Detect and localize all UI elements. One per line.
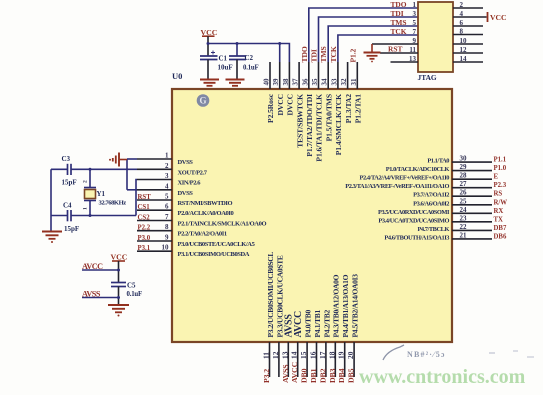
svg-text:TDO: TDO xyxy=(391,0,407,9)
node CS1 xyxy=(138,204,151,211)
svg-text:P1.0: P1.0 xyxy=(494,165,507,172)
svg-text:34: 34 xyxy=(321,78,329,86)
svg-text:12: 12 xyxy=(460,46,468,54)
svg-text:P4.6/TBOUTH/A15/OA1I3: P4.6/TBOUTH/A15/OA1I3 xyxy=(384,234,449,241)
svg-text:P1.1/TA0: P1.1/TA0 xyxy=(427,158,449,165)
svg-text:TDI: TDI xyxy=(310,49,319,62)
svg-text:P1.2: P1.2 xyxy=(348,48,357,62)
wire crystal bottom row xyxy=(71,214,136,217)
node DB5 xyxy=(347,368,356,383)
svg-text:9: 9 xyxy=(165,234,169,242)
svg-text:6: 6 xyxy=(165,203,169,211)
node R/W xyxy=(494,199,508,206)
ground under C1 xyxy=(200,80,219,86)
svg-text:C2: C2 xyxy=(245,54,254,62)
pin J12 xyxy=(453,46,483,54)
node P2.2 xyxy=(138,225,151,232)
ground DVSS sideways xyxy=(109,153,127,167)
svg-text:36: 36 xyxy=(301,78,309,86)
designator U0 xyxy=(172,71,182,81)
svg-text:40: 40 xyxy=(263,78,271,86)
pin 26 P3.7/A7/OA1I2 xyxy=(413,189,492,199)
node AVSS xyxy=(281,364,290,383)
svg-text:1: 1 xyxy=(83,207,89,210)
svg-text:VCC: VCC xyxy=(111,253,128,262)
svg-text:38: 38 xyxy=(282,78,290,86)
svg-text:P3.0/UCB0STE/UCA0CLK/A5: P3.0/UCB0STE/UCA0CLK/A5 xyxy=(178,241,256,248)
pin 1 DVSS xyxy=(137,152,193,167)
svg-text:6: 6 xyxy=(460,19,464,27)
node TX xyxy=(494,216,504,223)
pin J4 xyxy=(453,10,487,18)
svg-text:DB5: DB5 xyxy=(347,368,356,383)
pin 21 P4.6/TBOUTH/A15/OA1I3 xyxy=(384,231,492,241)
wire left vertical C3-C4 xyxy=(50,169,52,231)
wire TDO to JTAG xyxy=(309,8,418,62)
pin 28 P2.4/TA2/A4/VREF+/VeREF+/OA1I0 xyxy=(360,172,492,182)
svg-text:0.1uF: 0.1uF xyxy=(127,291,142,298)
node DB2 xyxy=(318,368,327,383)
node RX xyxy=(494,208,504,215)
connector JTAG body xyxy=(418,2,454,82)
node P3.2 xyxy=(262,369,271,383)
wire TCK to JTAG xyxy=(338,35,418,62)
svg-text:3: 3 xyxy=(413,10,417,18)
svg-text:P2.1/TAINCLK/SMCLK/A1/OA0O: P2.1/TAINCLK/SMCLK/A1/OA0O xyxy=(178,221,267,228)
node DB3 xyxy=(328,368,337,383)
pin 8 P2.2/TA0/A2/OA0I1 xyxy=(137,223,227,238)
pin J11 xyxy=(380,46,418,54)
svg-text:1: 1 xyxy=(165,152,169,160)
power VCC avcc xyxy=(111,253,128,283)
crystal Y1 xyxy=(83,169,127,215)
node P2.3 xyxy=(494,182,507,189)
svg-text:16: 16 xyxy=(309,351,318,359)
svg-text:P2.5Rosc: P2.5Rosc xyxy=(266,93,275,123)
svg-text:11: 11 xyxy=(262,352,271,359)
svg-text:DB2: DB2 xyxy=(318,368,327,383)
ground avss xyxy=(108,305,129,317)
svg-text:DVSS: DVSS xyxy=(178,159,194,166)
node AVSS xyxy=(82,289,120,299)
svg-text:DB1: DB1 xyxy=(309,368,318,383)
svg-text:1: 1 xyxy=(413,1,417,9)
svg-text:P1.3/TA2: P1.3/TA2 xyxy=(344,94,353,124)
node P3.0 xyxy=(138,235,151,242)
svg-text:TEST/SBWTCK: TEST/SBWTCK xyxy=(295,94,304,148)
svg-text:20: 20 xyxy=(346,351,355,359)
svg-text:2: 2 xyxy=(83,180,89,183)
pin J2 xyxy=(453,1,483,9)
svg-text:2: 2 xyxy=(460,1,464,9)
svg-text:R/W: R/W xyxy=(494,199,508,206)
svg-text:TX: TX xyxy=(494,216,504,223)
svg-text:P3.2/UCB0SOMI/UCB0SCL: P3.2/UCB0SOMI/UCB0SCL xyxy=(266,252,275,338)
svg-text:28: 28 xyxy=(460,172,468,180)
pin 24 P3.5/UCA0RXD/UCA0SOMI xyxy=(378,206,492,216)
svg-text:5: 5 xyxy=(165,193,169,201)
svg-text:TCK: TCK xyxy=(391,27,407,36)
wire TDI to JTAG xyxy=(319,17,419,62)
svg-text:VCC: VCC xyxy=(490,13,506,22)
pin 27 P2.3/TA1/A3/VREF-/VeREF-/OA1I1/OA1O xyxy=(345,180,492,190)
svg-text:XIN/P2.6: XIN/P2.6 xyxy=(178,180,202,187)
capacitor C3 xyxy=(51,155,77,187)
ground crystal xyxy=(42,232,62,244)
svg-text:NB#²·⁄5ɔ: NB#²·⁄5ɔ xyxy=(407,350,446,359)
svg-text:24: 24 xyxy=(460,206,468,214)
pin 40 P2.5Rosc xyxy=(263,62,276,123)
ground under C2 xyxy=(226,80,245,86)
pin 18 P4.3/TB0/A12/OA0O xyxy=(327,274,340,377)
svg-text:RX: RX xyxy=(494,208,504,215)
svg-text:E: E xyxy=(494,174,499,181)
svg-text:P3.0: P3.0 xyxy=(138,235,151,242)
node AVCC xyxy=(290,361,299,383)
svg-text:TDI: TDI xyxy=(391,9,404,18)
pin J1 xyxy=(391,0,417,9)
svg-text:U0: U0 xyxy=(172,71,182,81)
svg-text:23: 23 xyxy=(460,214,468,222)
pin 32 P1.3/TA2 xyxy=(340,62,353,123)
node AVCC xyxy=(82,262,120,272)
svg-text:13: 13 xyxy=(280,351,289,359)
svg-text:RST: RST xyxy=(388,45,402,54)
pin J10 xyxy=(453,37,483,45)
svg-text:AVCC: AVCC xyxy=(290,361,299,383)
svg-text:18: 18 xyxy=(327,351,336,359)
node P3.1 xyxy=(138,245,151,252)
node TMS xyxy=(319,46,328,62)
pin 36 P1.7/TA2/TDO/TDI xyxy=(301,62,314,157)
node RST JTAG xyxy=(388,45,402,54)
svg-text:P4.2/TB2: P4.2/TB2 xyxy=(322,310,331,338)
svg-text:14: 14 xyxy=(460,55,468,63)
svg-text:21: 21 xyxy=(460,231,468,239)
node TDI xyxy=(310,49,319,62)
pin 7 P2.1/TAINCLK/SMCLK/A1/OA0O xyxy=(137,213,266,228)
wire DVSS pins 1-4 xyxy=(127,159,137,190)
svg-text:P4.5/TB2/A14/OA0I3: P4.5/TB2/A14/OA0I3 xyxy=(351,274,360,338)
svg-text:5: 5 xyxy=(413,19,417,27)
svg-text:35: 35 xyxy=(311,78,319,86)
svg-text:P2.2: P2.2 xyxy=(138,225,151,232)
pin 16 P4.1/TB1 xyxy=(309,310,322,377)
svg-text:10: 10 xyxy=(162,244,170,252)
node CS2 xyxy=(138,214,151,221)
pin J9 xyxy=(372,37,418,45)
svg-text:DVCC: DVCC xyxy=(276,94,285,116)
svg-text:DB3: DB3 xyxy=(328,368,337,383)
pin J8 xyxy=(453,28,483,36)
capacitor C5 xyxy=(111,282,142,305)
svg-text:RS: RS xyxy=(494,191,503,198)
svg-text:P3.6/A6/OA0I2: P3.6/A6/OA0I2 xyxy=(413,200,449,207)
pin 13 AVSS xyxy=(280,314,294,377)
svg-text:4: 4 xyxy=(460,10,464,18)
svg-text:8: 8 xyxy=(165,223,169,231)
pin 22 P4.7/TBCLK xyxy=(417,223,492,233)
svg-text:G: G xyxy=(199,96,206,106)
pin J14 xyxy=(453,55,483,63)
wire XOUT row xyxy=(71,168,137,171)
svg-text:JTAG: JTAG xyxy=(418,73,437,82)
wire TMS to JTAG xyxy=(328,26,418,62)
svg-text:15: 15 xyxy=(299,351,308,359)
pin 33 P1.4/SMCLK/TCK xyxy=(330,62,343,155)
svg-text:AVCC: AVCC xyxy=(293,311,304,337)
watermark cntronics xyxy=(359,366,526,388)
pin 34 P1.5/TA0/TMS xyxy=(321,62,334,141)
svg-text:P3.4/UCA0TXD/UCA0SIMO: P3.4/UCA0TXD/UCA0SIMO xyxy=(378,217,449,224)
svg-text:P2.2/TA0/A2/OA0I1: P2.2/TA0/A2/OA0I1 xyxy=(178,231,227,238)
pin 2 XOUT/P2.7 xyxy=(137,162,208,177)
node DB1 xyxy=(309,368,318,383)
svg-text:37: 37 xyxy=(292,78,300,86)
svg-text:14: 14 xyxy=(290,351,299,359)
svg-text:DVCC: DVCC xyxy=(286,94,295,116)
svg-text:DB6: DB6 xyxy=(494,233,507,240)
pin 12 P3.3/UCB0CLK/UCA0STE xyxy=(271,255,284,377)
pin 11 P3.2/UCB0SOMI/UCB0SCL xyxy=(262,252,275,377)
power VCC JTAG xyxy=(488,12,507,22)
pin 6 P2.0/ACLK/A0/OA0I0 xyxy=(137,203,233,218)
node DB7 xyxy=(494,225,507,232)
pin 4 DVSS xyxy=(137,182,193,197)
svg-text:25: 25 xyxy=(460,197,468,205)
svg-text:Y1: Y1 xyxy=(97,190,106,198)
svg-text:7: 7 xyxy=(165,213,169,221)
pin 29 P1.0/TACLK/ADC10CLK xyxy=(386,163,492,173)
node E xyxy=(494,174,499,181)
svg-text:32: 32 xyxy=(340,78,348,86)
svg-text:P1.2/TA1: P1.2/TA1 xyxy=(354,94,363,124)
svg-text:DB7: DB7 xyxy=(494,225,507,232)
svg-text:32.768KHz: 32.768KHz xyxy=(99,200,127,207)
node DB4 xyxy=(337,368,346,383)
svg-text:C3: C3 xyxy=(62,155,71,163)
svg-text:RST: RST xyxy=(138,194,152,201)
pin J13 xyxy=(391,55,419,63)
pin 15 P4.0/TB0 xyxy=(299,310,312,377)
node DB6 xyxy=(494,233,507,240)
pin 30 P1.1/TA0 xyxy=(427,155,492,165)
svg-text:C4: C4 xyxy=(63,202,72,210)
pin 5 RST/NMI/SBWTDIO xyxy=(137,193,233,208)
svg-text:10uF: 10uF xyxy=(218,64,233,72)
svg-text:P1.7/TA2/TDO/TDI: P1.7/TA2/TDO/TDI xyxy=(305,94,314,157)
svg-text:15pF: 15pF xyxy=(64,225,79,233)
svg-text:29: 29 xyxy=(460,163,468,171)
pin 39 DVCC xyxy=(272,62,285,116)
svg-text:P4.7/TBCLK: P4.7/TBCLK xyxy=(417,226,449,233)
wire VCC bus xyxy=(207,42,290,62)
svg-text:33: 33 xyxy=(330,78,338,86)
svg-text:19: 19 xyxy=(337,351,346,359)
node P1.0 xyxy=(494,165,507,172)
svg-text:P3.1: P3.1 xyxy=(138,245,151,252)
svg-text:10: 10 xyxy=(460,37,468,45)
svg-text:TCK: TCK xyxy=(329,46,338,62)
pin 31 P1.2/TA1 xyxy=(350,62,363,123)
svg-text:P3.5/UCA0RXD/UCA0SOMI: P3.5/UCA0RXD/UCA0SOMI xyxy=(378,209,450,216)
pin 23 P3.4/UCA0TXD/UCA0SIMO xyxy=(378,214,492,224)
svg-text:31: 31 xyxy=(350,78,358,86)
node P1.2 xyxy=(348,48,357,62)
capacitor C4 xyxy=(51,202,79,234)
node TCK xyxy=(329,46,338,62)
pin 37 TEST/SBWTCK xyxy=(292,62,305,148)
svg-text:www.cntronics.com: www.cntronics.com xyxy=(359,366,526,388)
svg-text:P1.1: P1.1 xyxy=(494,157,507,164)
svg-text:P1.5/TA0/TMS: P1.5/TA0/TMS xyxy=(324,94,333,141)
svg-text:TMS: TMS xyxy=(391,18,407,27)
pin J6 xyxy=(453,19,483,27)
node TDO xyxy=(300,46,309,62)
svg-text:TMS: TMS xyxy=(319,46,328,62)
svg-text:P1.0/TACLK/ADC10CLK: P1.0/TACLK/ADC10CLK xyxy=(386,166,450,173)
svg-text:8: 8 xyxy=(460,28,464,36)
pin 25 P3.6/A6/OA0I2 xyxy=(413,197,492,207)
pin 35 P1.6/TA1/TDI/TCLK xyxy=(311,62,324,162)
svg-text:CS2: CS2 xyxy=(138,214,151,221)
watermark logo G xyxy=(197,94,210,107)
svg-text:CS1: CS1 xyxy=(138,204,151,211)
svg-text:DVSS: DVSS xyxy=(178,190,194,197)
power VCC top xyxy=(201,28,218,44)
svg-text:P4.4/TB1/A13/OA1O: P4.4/TB1/A13/OA1O xyxy=(341,274,350,337)
pin 17 P4.2/TB2 xyxy=(318,310,331,377)
svg-text:P2.3: P2.3 xyxy=(494,182,507,189)
pin 3 XIN/P2.6 xyxy=(137,172,201,187)
pin J5 xyxy=(391,18,417,27)
svg-text:TDO: TDO xyxy=(300,46,309,62)
svg-text:DB4: DB4 xyxy=(337,368,346,383)
svg-text:XOUT/P2.7: XOUT/P2.7 xyxy=(178,169,208,176)
pin 9 P3.0/UCB0STE/UCA0CLK/A5 xyxy=(137,234,256,249)
pin J3 xyxy=(391,9,417,18)
svg-text:P2.0/ACLK/A0/OA0I0: P2.0/ACLK/A0/OA0I0 xyxy=(178,210,234,217)
svg-text:P4.1/TB1: P4.1/TB1 xyxy=(313,310,322,338)
svg-text:0.1uF: 0.1uF xyxy=(243,65,258,72)
svg-text:C1: C1 xyxy=(219,55,228,63)
svg-text:3: 3 xyxy=(165,172,169,180)
pin 14 AVCC xyxy=(290,311,304,377)
capacitor C1 xyxy=(200,51,233,79)
watermark scribble xyxy=(383,345,534,360)
svg-text:RST/NMI/SBWTDIO: RST/NMI/SBWTDIO xyxy=(178,200,233,207)
svg-text:DB0: DB0 xyxy=(300,368,309,383)
svg-text:AVSS: AVSS xyxy=(281,364,290,383)
node RS xyxy=(494,191,503,198)
capacitor C2 xyxy=(229,54,258,79)
svg-text:12: 12 xyxy=(271,351,280,359)
ground JTAG pin9 xyxy=(364,44,381,62)
svg-text:P2.4/TA2/A4/VREF+/VeREF+/OA1I0: P2.4/TA2/A4/VREF+/VeREF+/OA1I0 xyxy=(360,175,450,182)
node DB0 xyxy=(300,368,309,383)
svg-text:4: 4 xyxy=(165,182,169,190)
svg-text:39: 39 xyxy=(272,78,280,86)
pin 38 DVCC xyxy=(282,62,295,116)
svg-text:30: 30 xyxy=(460,155,468,163)
svg-text:27: 27 xyxy=(460,180,468,188)
svg-text:22: 22 xyxy=(460,223,468,231)
pin 10 P3.1/UCB0SIMO/UCB0SDA xyxy=(137,244,250,259)
pin 20 P4.5/TB2/A14/OA0I3 xyxy=(346,274,359,377)
svg-text:P4.3/TB0/A12/OA0O: P4.3/TB0/A12/OA0O xyxy=(332,274,341,337)
svg-text:P3.1/UCB0SIMO/UCB0SDA: P3.1/UCB0SIMO/UCB0SDA xyxy=(178,251,250,258)
pin J7 xyxy=(391,27,417,36)
svg-text:P1.4/SMCLK/TCK: P1.4/SMCLK/TCK xyxy=(334,94,343,155)
svg-text:17: 17 xyxy=(318,351,327,359)
svg-text:P4.0/TB0: P4.0/TB0 xyxy=(304,310,313,338)
svg-text:P3.2: P3.2 xyxy=(262,369,271,383)
svg-text:P2.3/TA1/A3/VREF-/VeREF-/OA1I1: P2.3/TA1/A3/VREF-/VeREF-/OA1I1/OA1O xyxy=(345,183,449,190)
svg-text:C5: C5 xyxy=(127,282,136,290)
svg-text:15pF: 15pF xyxy=(62,179,77,187)
svg-text:2: 2 xyxy=(165,162,169,170)
svg-text:7: 7 xyxy=(413,28,417,36)
wire XIN row xyxy=(136,180,137,216)
pin 19 P4.4/TB1/A13/OA1O xyxy=(337,274,350,377)
node RST xyxy=(138,194,152,201)
svg-text:P1.6/TA1/TDI/TCLK: P1.6/TA1/TDI/TCLK xyxy=(315,94,324,162)
IC U0 MSP430 body xyxy=(172,89,452,342)
svg-text:P3.7/A7/OA1I2: P3.7/A7/OA1I2 xyxy=(413,192,449,199)
svg-text:26: 26 xyxy=(460,189,468,197)
node P1.1 xyxy=(494,157,507,164)
